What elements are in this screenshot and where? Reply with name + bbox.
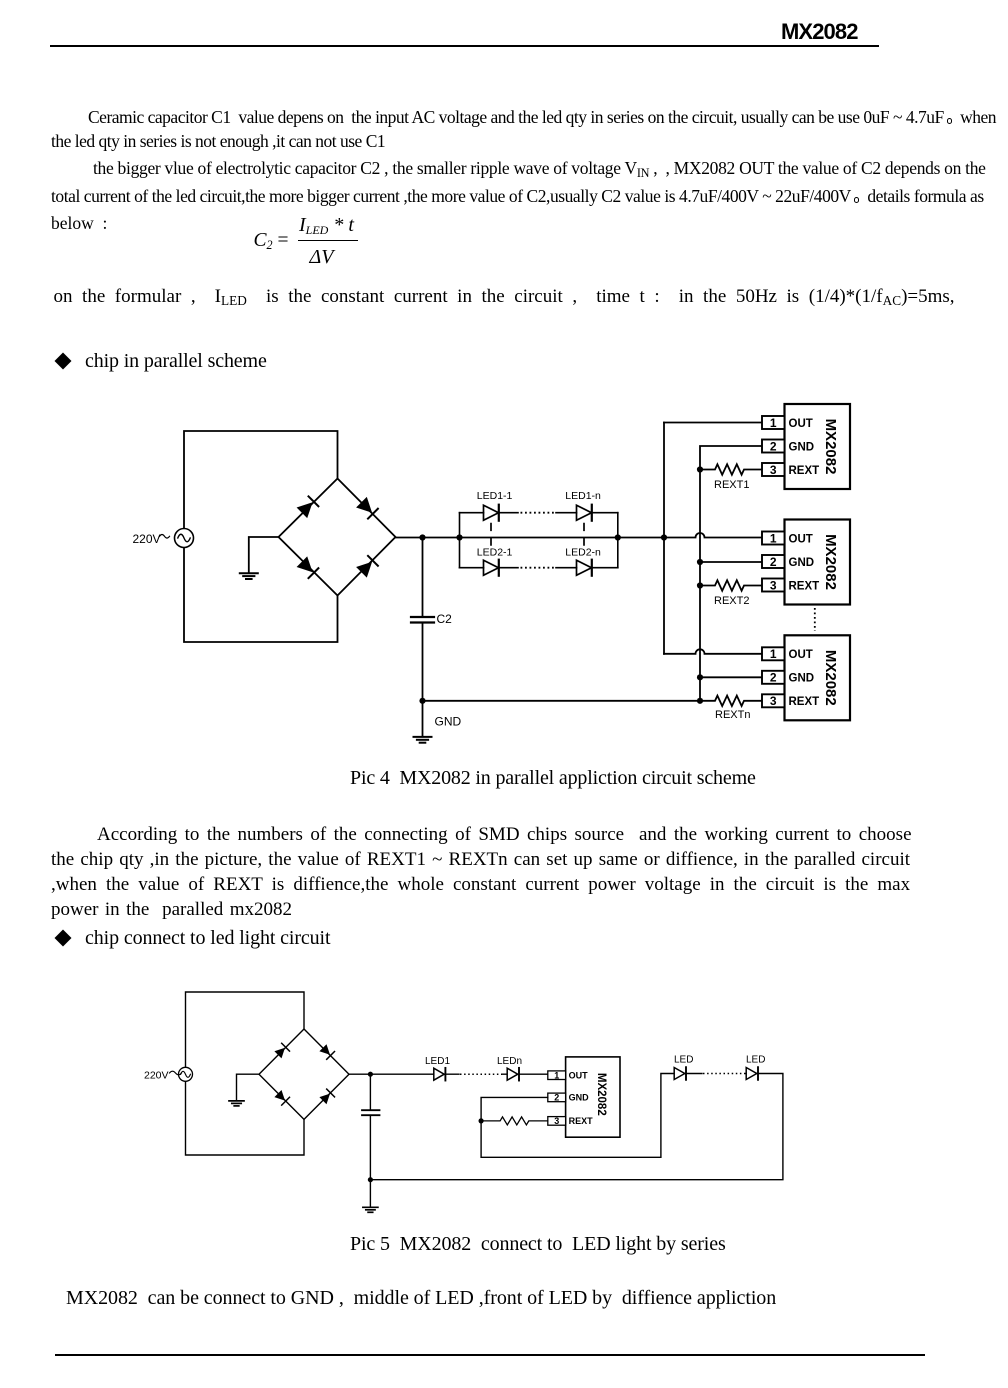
bullet 2 [57, 928, 330, 948]
svg-text:MX2082: MX2082 [595, 1073, 607, 1116]
diode LEDn [507, 1068, 518, 1080]
svg-text:REXT: REXT [789, 696, 820, 708]
resistor REXT1 [700, 464, 762, 474]
pin 1 OUT of U2 [762, 532, 785, 545]
svg-text:REXT2: REXT2 [714, 595, 749, 607]
wire: GND bus to U3 pin2 [700, 676, 762, 678]
resistor REXTn [700, 696, 762, 706]
svg-text:REXTn: REXTn [715, 709, 750, 721]
pin 3 REXT of U3 [762, 694, 785, 707]
node: REXT tap pic5 [479, 1118, 484, 1123]
svg-text:GND: GND [789, 557, 815, 569]
dashed wire between chain LEDs [703, 1073, 745, 1075]
node: U3 pin2 tap [697, 674, 703, 680]
wire: main output pic5 [349, 1073, 548, 1075]
header rule [50, 45, 879, 47]
svg-text:REXT: REXT [789, 580, 820, 592]
node: bottom rail pic5 [368, 1177, 373, 1182]
LED1-n [577, 505, 592, 520]
svg-text:OUT: OUT [789, 418, 813, 430]
node: GND rail right [697, 698, 703, 704]
svg-text:3: 3 [770, 694, 777, 708]
paragraph 1 line 2 [51, 133, 385, 151]
pin 3 REXT of U1 [762, 463, 785, 476]
svg-text:220V: 220V [144, 1070, 169, 1082]
wire: GND bus to U2 pin2 [700, 561, 762, 563]
svg-text:GND: GND [569, 1093, 590, 1103]
svg-text:1: 1 [770, 647, 777, 661]
paragraph 2 line 2 [51, 188, 984, 206]
wire: OUT bus to U3 pin1 with hop [664, 649, 762, 653]
diode bridge D2 top-right [356, 497, 372, 513]
LED1-1 [484, 505, 499, 520]
wire: bridge to ground pic4 [249, 537, 279, 572]
svg-text:MX2082: MX2082 [822, 419, 839, 475]
svg-text:220V: 220V [133, 532, 161, 546]
dotted continuation branch 2 [521, 567, 557, 569]
diode bridge bottom-right pic5 [319, 1094, 330, 1105]
paragraph 1 line 1 [88, 109, 996, 127]
resistor REXT2 [700, 580, 762, 590]
svg-text:GND: GND [435, 715, 462, 729]
ground: bridge neutral pic4 [240, 572, 258, 574]
OUT bus vertical [663, 423, 665, 654]
diode bridge top-right pic5 [319, 1044, 330, 1055]
node: REXT2 tap [697, 582, 703, 588]
pin 2 GND of U2 [762, 555, 785, 568]
bottom paragraph [66, 1288, 776, 1308]
LED2-1 [484, 560, 499, 575]
node: LED box left [456, 534, 462, 540]
svg-text:LED1-1: LED1-1 [477, 490, 513, 502]
ground: bridge neutral pic5 [229, 1100, 244, 1102]
wire: to ground pic5 [369, 1180, 371, 1207]
svg-text:2: 2 [554, 1093, 559, 1103]
svg-text:MX2082: MX2082 [822, 534, 839, 590]
svg-text:GND: GND [789, 673, 815, 685]
svg-text:1: 1 [770, 416, 777, 430]
svg-text:LED2-n: LED2-n [565, 547, 601, 559]
diode bridge D4 bottom-right [356, 562, 372, 578]
diode bridge top-left pic5 [274, 1048, 285, 1059]
svg-text:LED2-1: LED2-1 [477, 547, 513, 559]
diode LED chain-2 [746, 1068, 757, 1080]
svg-text:REXT: REXT [569, 1116, 594, 1126]
diode LED1 [434, 1068, 444, 1080]
GND bus from U1 pin2 [700, 446, 762, 701]
resistor REXT pic5 [481, 1117, 548, 1125]
node: LED box right [615, 534, 621, 540]
svg-text:3: 3 [770, 463, 777, 477]
bullet 1 [57, 351, 267, 371]
chip U3 MX2082 body [785, 635, 851, 720]
svg-text:REXT: REXT [789, 465, 820, 477]
wire: LED branch 2 [460, 567, 618, 569]
wire: U4 GND loop to second LED chain [481, 1074, 674, 1158]
svg-text:LEDn: LEDn [497, 1056, 522, 1067]
pin 1 OUT of U4 [548, 1071, 566, 1080]
paragraph 2 line 3 [51, 215, 107, 233]
svg-text:3: 3 [554, 1116, 559, 1126]
wire: AC source loop pic5 [186, 992, 305, 1155]
node: C2 tap [419, 534, 425, 540]
node: C tap pic5 [368, 1072, 373, 1077]
ground: bottom pic5 [363, 1206, 378, 1208]
svg-text:3: 3 [770, 578, 777, 592]
svg-text:2: 2 [770, 439, 777, 453]
bridge rectifier pic4 [279, 479, 396, 596]
dashed links between LED rows [491, 523, 584, 548]
svg-text:MX2082: MX2082 [822, 650, 839, 706]
diode bridge D1 top-left [297, 502, 313, 518]
bridge rectifier pic5 [259, 1029, 349, 1119]
svg-text:LED1-n: LED1-n [565, 490, 601, 502]
dotted separator U2/U3 [814, 608, 816, 631]
svg-text:REXT1: REXT1 [714, 479, 749, 491]
paragraph 2 line 1 [93, 160, 986, 178]
wire: OUT bus to U1 pin1 [664, 422, 762, 424]
paragraph 3 [54, 287, 955, 306]
dashed wire LED1..LEDn [460, 1073, 502, 1075]
chip U1 MX2082 body [785, 404, 851, 489]
caption pic4 [350, 768, 756, 788]
LED2-n [577, 560, 592, 575]
pin 3 REXT of U4 [548, 1117, 566, 1126]
wire: second LED chain [373, 1074, 783, 1180]
AC source 220V pic5 [179, 1067, 193, 1081]
svg-text:1: 1 [554, 1070, 559, 1080]
svg-text:LED1: LED1 [425, 1056, 450, 1067]
wire: down to ground pic4 [422, 701, 424, 736]
caption pic5 [350, 1234, 726, 1254]
svg-text:GND: GND [789, 441, 815, 453]
svg-text:OUT: OUT [569, 1070, 589, 1080]
svg-text:1: 1 [770, 531, 777, 545]
pin 1 OUT of U3 [762, 647, 785, 660]
wire: LED branch 1 [460, 512, 618, 514]
pin 3 REXT of U2 [762, 579, 785, 592]
chip U4 MX2082 body pic5 [566, 1057, 620, 1137]
capacitor C2 [422, 538, 424, 616]
diode bridge D3 bottom-left [297, 556, 313, 572]
pin 1 OUT of U1 [762, 416, 785, 429]
bottom rule [55, 1354, 925, 1356]
diode LED chain-1 [674, 1068, 685, 1080]
AC source 220V pic4 [175, 529, 194, 548]
wire: bridge to ground pic5 [237, 1074, 260, 1100]
wire: GND rail [423, 700, 701, 702]
wire: main output with hop over GND bus [396, 533, 763, 538]
svg-text:C2: C2 [437, 612, 453, 626]
header title [781, 21, 858, 43]
chip U2 MX2082 body [785, 520, 851, 605]
wire: AC source loop pic4 [184, 431, 338, 642]
svg-text:LED: LED [746, 1055, 765, 1066]
formula C2 = I_LED*t / dV [254, 231, 289, 251]
node: OUT bus junction [661, 534, 667, 540]
ground: GND bottom pic4 [414, 736, 432, 738]
dotted continuation branch 1 [521, 512, 557, 514]
node: GND rail left [419, 698, 425, 704]
svg-text:2: 2 [770, 555, 777, 569]
LED box verticals [460, 513, 618, 568]
svg-text:OUT: OUT [789, 649, 813, 661]
diode bridge bottom-left pic5 [274, 1090, 285, 1101]
node: U2 pin2 tap [697, 559, 703, 565]
capacitor C pic5 [369, 1074, 371, 1109]
pin 2 GND of U1 [762, 440, 785, 453]
node: REXT1 tap [697, 466, 703, 472]
paragraph 4 [97, 825, 912, 844]
svg-text:2: 2 [770, 671, 777, 685]
svg-text:LED: LED [674, 1055, 693, 1066]
svg-text:OUT: OUT [789, 533, 813, 545]
pin 2 GND of U3 [762, 671, 785, 684]
pin 2 GND of U4 [548, 1093, 566, 1102]
